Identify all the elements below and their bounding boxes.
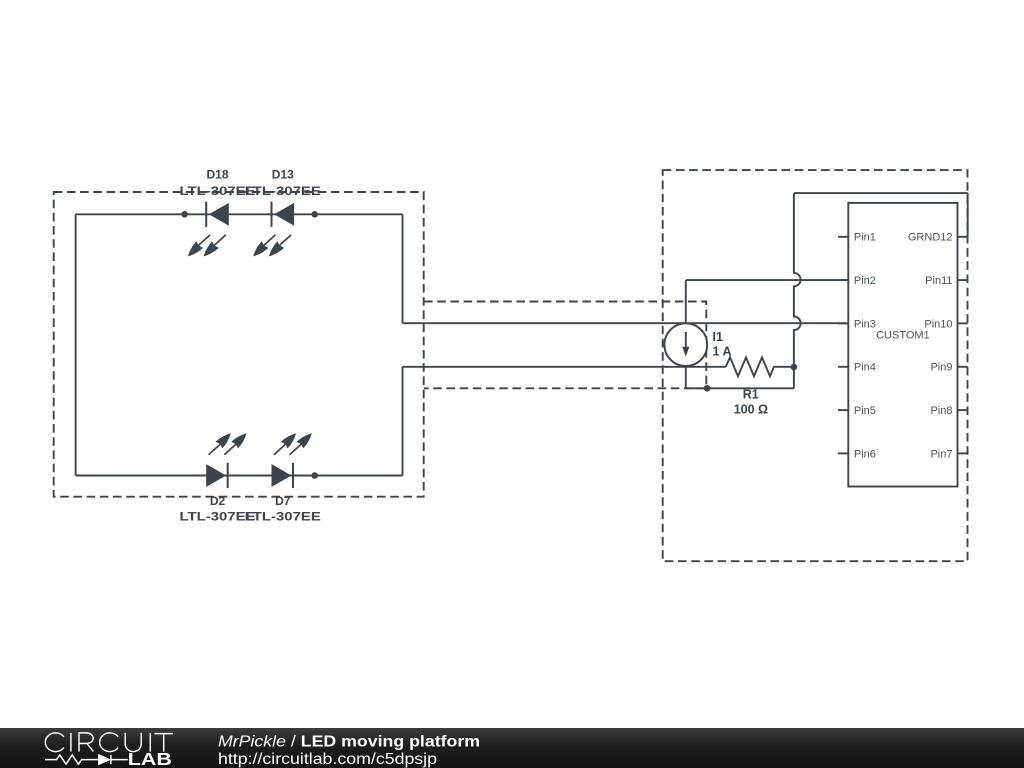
pin 12 stub	[958, 236, 968, 238]
led D13	[253, 202, 294, 257]
pin 9 stub	[958, 366, 968, 368]
led D2	[206, 433, 246, 488]
wire ground top horizontal	[794, 192, 968, 194]
svg-text:D13: D13	[272, 167, 294, 181]
pin 5 stub	[838, 409, 848, 411]
resistor R1 zigzag	[726, 357, 794, 376]
wire ground down to GRND12	[967, 193, 969, 237]
pin 4 stub	[838, 366, 848, 368]
pin 3 stub	[838, 322, 848, 324]
svg-text:R1: R1	[743, 388, 759, 402]
svg-text:GRND12: GRND12	[908, 232, 953, 244]
svg-text:Pin6: Pin6	[854, 448, 876, 460]
footer bar	[0, 728, 1024, 768]
led D7	[272, 433, 312, 488]
svg-text:Pin2: Pin2	[854, 275, 876, 287]
svg-text:Pin7: Pin7	[930, 448, 952, 460]
svg-text:Pin10: Pin10	[924, 318, 952, 330]
svg-text:LAB: LAB	[128, 749, 172, 768]
wire Pin2 net (I1 top to chip)	[686, 279, 849, 281]
svg-text:D2: D2	[210, 494, 226, 508]
svg-text:Pin11: Pin11	[925, 275, 952, 287]
svg-text:Pin9: Pin9	[930, 362, 952, 374]
wire I1 bottom lead	[685, 366, 687, 388]
svg-text:CUSTOM1: CUSTOM1	[876, 330, 930, 342]
svg-text:LTL-307EE: LTL-307EE	[245, 510, 321, 524]
svg-text:100 Ω: 100 Ω	[734, 402, 768, 416]
wire bottom detour horizontal	[686, 387, 794, 389]
pin 10 stub	[958, 322, 968, 324]
svg-text:Pin5: Pin5	[854, 405, 876, 417]
svg-text:Pin1: Pin1	[854, 232, 876, 244]
pin 11 stub	[958, 279, 968, 281]
pin 6 stub	[838, 452, 848, 454]
current source I1	[664, 323, 707, 366]
wire right of LED loop lower segment	[402, 367, 404, 476]
svg-text:D18: D18	[206, 167, 228, 181]
node dots	[181, 211, 188, 218]
svg-text:Pin3: Pin3	[854, 318, 876, 330]
pin 8 stub	[958, 409, 968, 411]
IC CUSTOM1	[838, 203, 968, 487]
svg-text:Pin8: Pin8	[930, 405, 952, 417]
connection bundle dashed box	[424, 302, 706, 389]
wire top of LED loop	[76, 213, 403, 215]
wire bottom of LED loop	[76, 475, 403, 477]
wire ground vertical with hops	[794, 193, 801, 367]
led D18	[188, 202, 229, 257]
wire bottom detour vertical	[793, 367, 795, 388]
wire Pin3 net (LED top to chip)	[403, 322, 849, 324]
wire LED bottom to R1	[403, 366, 726, 368]
svg-text:MrPickle / LED moving platform: MrPickle / LED moving platform	[218, 733, 480, 750]
LED panel dashed box	[54, 192, 424, 497]
logo resistor+diode symbol	[45, 755, 128, 764]
pin 1 stub	[838, 236, 848, 238]
driver dashed box	[663, 170, 968, 561]
svg-text:LTL-307EE: LTL-307EE	[245, 184, 321, 198]
wire right of LED loop upper segment	[402, 214, 404, 323]
svg-text:1 A: 1 A	[713, 345, 732, 359]
pin 2 stub	[838, 279, 848, 281]
pin 7 stub	[958, 452, 968, 454]
svg-text:D7: D7	[275, 494, 291, 508]
logo CIRCUIT drawn letters	[45, 733, 173, 752]
svg-text:Pin4: Pin4	[854, 362, 876, 374]
wire left of LED loop	[75, 214, 77, 475]
svg-text:I1: I1	[713, 330, 723, 344]
svg-text:http://circuitlab.com/c5dpsjp: http://circuitlab.com/c5dpsjp	[218, 751, 437, 768]
wire I1 top lead	[685, 280, 687, 323]
